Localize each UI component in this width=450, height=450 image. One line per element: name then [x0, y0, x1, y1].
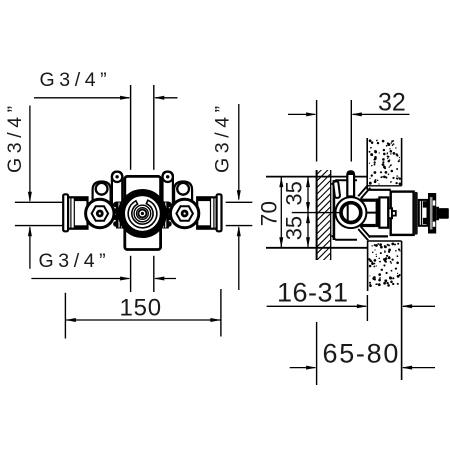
cartridge inner circle 1 [134, 205, 151, 222]
gland lower dark segment [423, 218, 427, 224]
centerline segment inside ring [336, 212, 341, 214]
left port dimension line lower segment [29, 227, 31, 269]
70 arrow up [279, 177, 283, 188]
top G3/4 arrow right-pointing [120, 96, 131, 100]
bottom G3/4 arrow left-pointing [154, 277, 165, 281]
right screw tower circle [163, 172, 173, 182]
side ring outer circle [335, 197, 366, 228]
top port prong [347, 171, 354, 196]
bottom G3/4 dimension line right segment [155, 278, 176, 280]
left knurled ring [113, 202, 125, 229]
right check-valve cap circle [177, 183, 189, 195]
top-right chamfer double line [358, 185, 370, 199]
gland body [419, 200, 428, 226]
plate bottom edge [336, 239, 358, 241]
cartridge outer thin circle [119, 190, 167, 238]
svg-text:16-31: 16-31 [277, 277, 349, 307]
16-31 left extension line [366, 295, 368, 321]
svg-text:G3/4”: G3/4” [4, 101, 26, 173]
bottom G3/4 dimension line left segment [31, 278, 129, 280]
left screw center dot [115, 175, 118, 178]
150 left extension line [64, 293, 66, 339]
65-80 dimension line left segment [290, 367, 316, 369]
flange white slit upper [433, 200, 436, 205]
cartridge stem circle [138, 210, 146, 218]
65-80 arrow left-pointing [402, 366, 413, 370]
150 arrow left-pointing [65, 318, 76, 322]
flange white slit lower [433, 222, 436, 227]
set screw nub inner [392, 211, 396, 216]
left union nut circle [86, 199, 114, 227]
lower wall block [368, 241, 402, 380]
left port bottom extension line [15, 225, 63, 227]
tube upper thick line [360, 199, 376, 202]
left port arrow up-pointing [28, 226, 32, 237]
left pipe groove 1 [70, 198, 72, 228]
top G3/4 arrow left-pointing [154, 96, 165, 100]
left check-valve cap [93, 182, 111, 214]
dark vertical bar [376, 198, 380, 227]
svg-text:32: 32 [378, 89, 406, 117]
set screw nub outer [388, 208, 392, 218]
65-80 left extension line [316, 322, 318, 385]
cartridge inner circle 2 [137, 208, 149, 220]
right port dimension line upper segment [238, 104, 240, 199]
left screw tower circle [112, 172, 122, 182]
32 arrow left-pointing [351, 112, 362, 116]
right pipe barrel [197, 197, 217, 228]
65-80 arrow right-pointing [306, 366, 317, 370]
bottom port left extension line [130, 256, 132, 292]
gland upper dark segment [423, 201, 427, 207]
right nut center [181, 210, 189, 218]
35 upper dimension line [307, 177, 309, 213]
right screw tower [163, 172, 173, 205]
right pipe thread band top [197, 198, 210, 202]
svg-text:35: 35 [282, 216, 307, 240]
left pipe groove 2 [73, 198, 75, 228]
svg-text:G3/4”: G3/4” [39, 250, 111, 272]
top G3/4 dimension line right segment [155, 97, 177, 99]
tube mid shelf line [360, 212, 380, 214]
16-31 arrow right-pointing [357, 304, 368, 308]
left port dimension line upper segment [29, 106, 31, 201]
right port top extension line [226, 201, 253, 203]
cartridge center dot [141, 212, 144, 215]
gland divider line [421, 200, 423, 225]
right port dimension line lower segment [238, 227, 240, 290]
35 lower arrow up [306, 213, 310, 224]
left pipe thread band bottom [75, 225, 88, 229]
cartridge thick black ring [122, 193, 163, 234]
right screw center dot [166, 175, 169, 178]
left pipe thread band top [75, 198, 88, 202]
32 left extension line [316, 100, 318, 162]
35 upper arrow down [306, 202, 310, 213]
tube lower thick line [360, 224, 376, 227]
top G3/4 dimension line left segment [34, 97, 129, 99]
upper wall block [367, 138, 402, 190]
plate front face dark band [333, 180, 336, 240]
small screw prong [333, 181, 340, 198]
svg-text:65-80: 65-80 [323, 339, 401, 369]
plate top edge [336, 179, 358, 181]
svg-text:G3/4”: G3/4” [40, 69, 112, 91]
16-31 arrow left-pointing [402, 304, 413, 308]
16-31 dimension line right segment [403, 305, 435, 307]
150 dimension line [65, 319, 221, 321]
svg-text:70: 70 [257, 201, 282, 227]
side bottom extension line y=247.8 [266, 247, 368, 249]
right union nut hexagon [176, 206, 193, 220]
plate top-left chamfer [332, 180, 337, 185]
right port bottom extension line [226, 225, 253, 227]
right check-valve cap [174, 182, 192, 214]
body section B [379, 197, 388, 227]
65-80 dimension line right segment [403, 367, 435, 369]
top port left extension line [130, 85, 132, 170]
left check-valve cap circle [96, 183, 108, 195]
right knurled ring [160, 202, 172, 229]
left pipe barrel [68, 197, 88, 228]
bottom port right extension line [153, 256, 155, 292]
svg-text:G3/4”: G3/4” [212, 101, 234, 173]
150 right extension line [220, 289, 222, 337]
left port top extension line [15, 201, 63, 203]
right port arrow up-pointing [237, 226, 241, 237]
left screw tower [112, 172, 122, 205]
chord line through ring [347, 204, 349, 222]
spindle shaft collar [436, 207, 439, 220]
housing end cap dark band [414, 192, 418, 235]
flange gray bar [430, 197, 433, 230]
70 dimension line [280, 177, 282, 248]
35 lower arrow down [306, 237, 310, 248]
right union nut circle [170, 199, 198, 227]
central body housing [125, 176, 161, 249]
32 dimension line right segment [353, 113, 410, 115]
70 arrow down [279, 237, 283, 248]
body top edge [369, 189, 391, 191]
right nut center hole [184, 212, 186, 214]
left union nut hexagon [92, 206, 109, 220]
top port prong cap [347, 171, 354, 175]
35 lower dimension line [307, 213, 309, 248]
bottom G3/4 arrow right-pointing [120, 277, 131, 281]
finished wall hatched layer [317, 153, 332, 280]
35 upper arrow up [306, 177, 310, 188]
cartridge housing big rect [391, 192, 414, 235]
plate bottom-left chamfer [332, 236, 337, 241]
16-31 dimension line left segment [267, 305, 366, 307]
side centerline [292, 212, 340, 214]
cartridge C-shaped retainer arc [128, 200, 157, 228]
bottom-right chamfer double line [358, 227, 370, 241]
spindle shaft [439, 208, 449, 219]
side ring inner thick circle [341, 203, 361, 223]
32 right extension line [350, 100, 352, 162]
svg-text:35: 35 [282, 181, 307, 205]
right pipe thread band bottom [197, 225, 210, 229]
left nut center hole [99, 212, 101, 214]
32 dimension line left segment [288, 113, 315, 115]
150 arrow right-pointing [210, 318, 221, 322]
svg-text:150: 150 [120, 295, 162, 322]
side top extension line y=176.6 [266, 176, 367, 178]
left nut center [96, 210, 104, 218]
32 arrow right-pointing [306, 112, 317, 116]
top port right extension line [153, 85, 155, 170]
left pipe end cap [63, 194, 68, 231]
right pipe end cap [217, 194, 222, 231]
left port arrow down-pointing [28, 192, 32, 203]
right pipe groove 1 [210, 198, 212, 228]
right port arrow down-pointing [237, 190, 241, 201]
right pipe groove 2 [213, 198, 215, 228]
flange body [428, 193, 436, 234]
body bottom edge [369, 235, 389, 237]
